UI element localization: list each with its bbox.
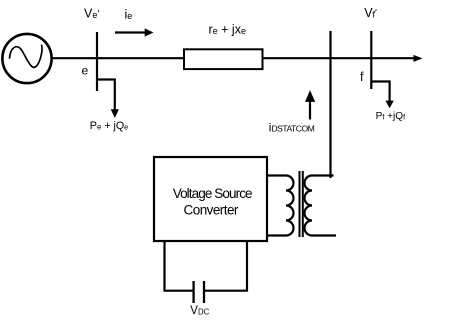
transformer T1 core <box>300 171 303 237</box>
svg-text:Voltage Source: Voltage Source <box>173 186 252 201</box>
current arrow ie <box>115 31 146 33</box>
arrowhead Pe flow <box>111 109 119 118</box>
svg-text:Ve′: Ve′ <box>84 6 99 20</box>
impedance box re+jxe <box>184 49 263 69</box>
svg-text:iDSTATCOM: iDSTATCOM <box>269 121 315 135</box>
capacitor C1 <box>194 281 204 303</box>
wire: impedance box to line end <box>260 57 415 59</box>
wire: DC link left <box>165 241 194 291</box>
current arrow iDSTATCOM <box>309 101 311 120</box>
svg-text:Converter: Converter <box>184 203 239 218</box>
arrowhead at line end <box>414 55 423 62</box>
arrowhead Pf flow <box>385 101 393 109</box>
wire: f power tap <box>371 82 389 102</box>
svg-text:e: e <box>82 63 89 77</box>
svg-text:VDC: VDC <box>190 305 209 317</box>
svg-text:ie: ie <box>125 7 133 21</box>
transformer T1 secondary winding <box>305 176 336 236</box>
svg-text:re + jxe: re + jxe <box>209 22 246 36</box>
node e busbar <box>96 32 98 91</box>
transformer T1 primary winding <box>267 176 294 236</box>
svg-text:Vf′: Vf′ <box>364 6 377 20</box>
AC source G1 <box>2 34 51 83</box>
svg-text:Pf +jQf: Pf +jQf <box>376 111 406 122</box>
wire: DC link right <box>205 241 248 291</box>
arrowhead ie <box>145 28 154 36</box>
svg-text:Pe + jQe: Pe + jQe <box>90 120 129 132</box>
arrowhead iDSTATCOM <box>305 90 315 102</box>
voltage source converter U1 <box>154 157 267 241</box>
wire: e power tap <box>97 80 115 111</box>
wire: source to impedance box <box>51 57 186 59</box>
sine wave symbol <box>10 45 43 67</box>
node f busbar <box>370 31 372 89</box>
wire: STATCOM branch from line to transformer <box>329 31 331 178</box>
svg-text:f: f <box>360 70 364 84</box>
